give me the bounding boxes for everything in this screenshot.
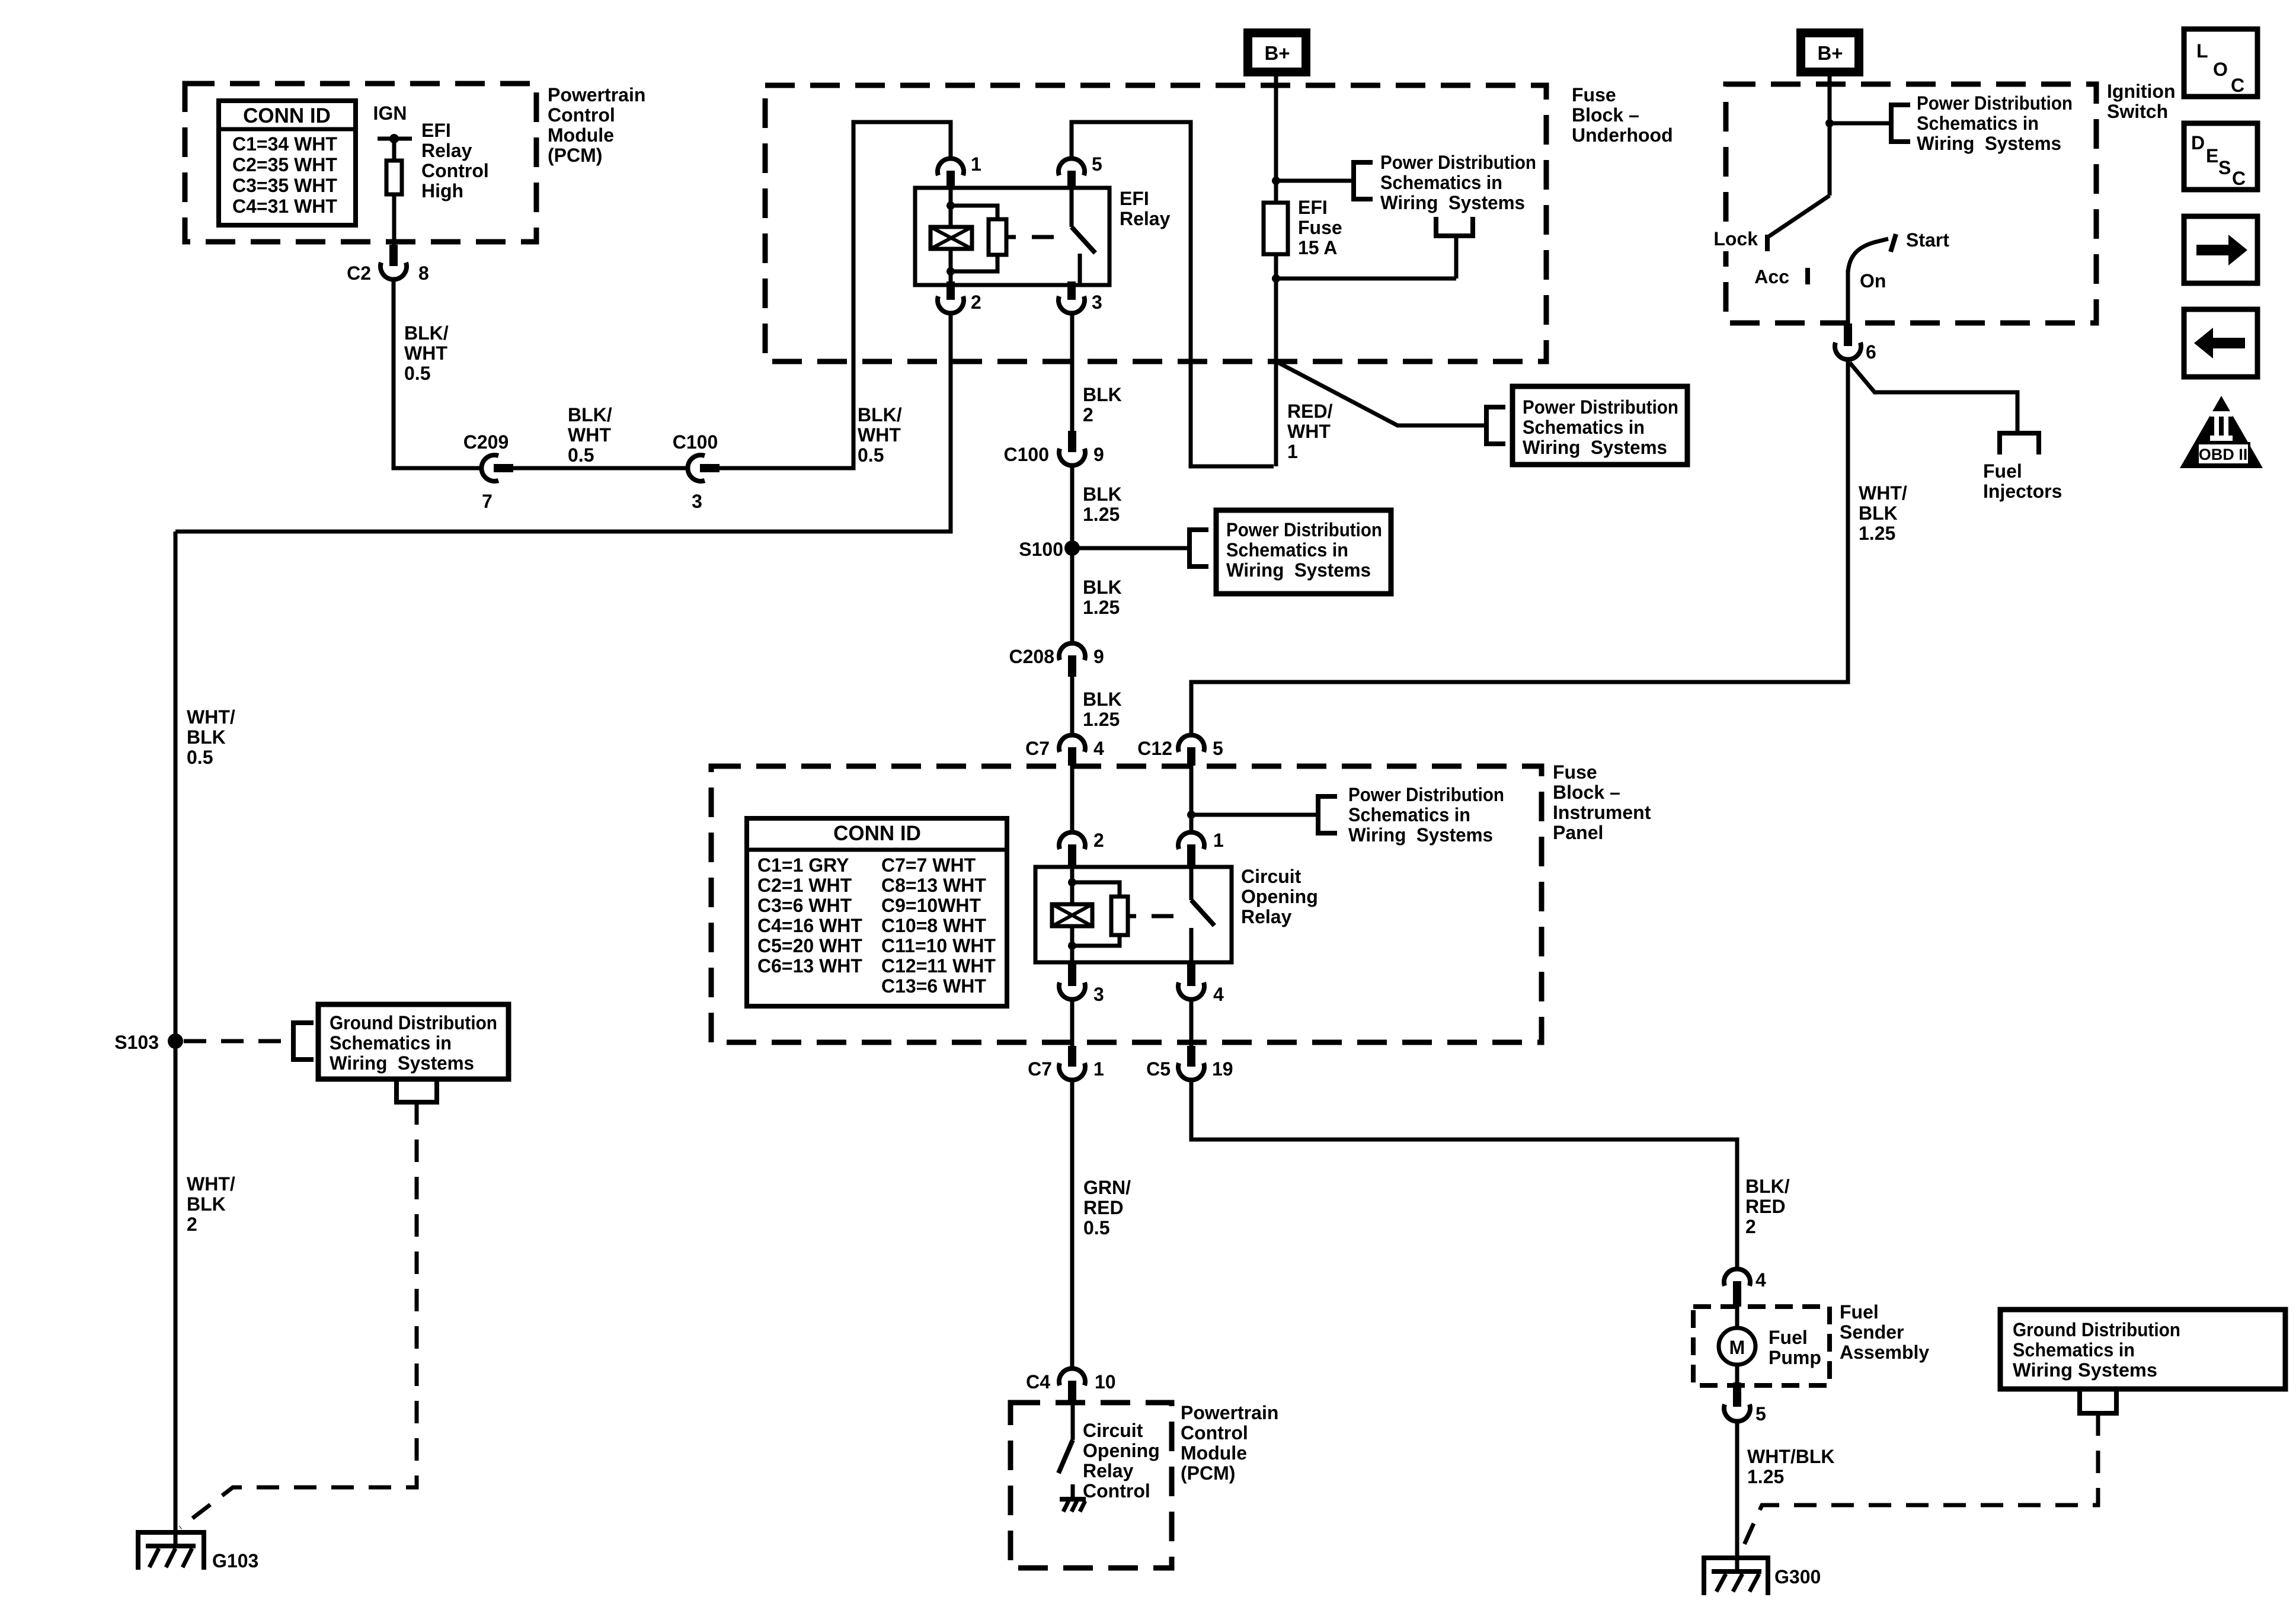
label BLK 1.25 (above S100) (1083, 484, 1122, 525)
svg-text:Wiring Systems: Wiring Systems (1348, 824, 1493, 846)
svg-text:Start: Start (1906, 229, 1949, 251)
svg-text:Opening: Opening (1083, 1440, 1160, 1461)
svg-text:WHT: WHT (568, 424, 611, 446)
svg-text:Ground Distribution: Ground Distribution (330, 1012, 497, 1033)
svg-text:Ignition: Ignition (2107, 81, 2176, 102)
Fuse Block - Underhood dashed box (765, 85, 1546, 361)
svg-text:IGN: IGN (373, 103, 407, 124)
svg-text:Power Distribution: Power Distribution (1380, 152, 1536, 173)
label EFI Relay Control High (421, 120, 489, 201)
svg-text:1: 1 (1287, 441, 1298, 462)
svg-text:C7: C7 (1028, 1058, 1052, 1080)
svg-text:Control: Control (1083, 1480, 1150, 1502)
flag bracket (B+ power distribution) (1354, 162, 1373, 199)
wire BLK 1.25 S100 to C208 (1070, 548, 1075, 644)
svg-text:C10=8 WHT: C10=8 WHT (881, 915, 986, 936)
svg-text:C11=10 WHT: C11=10 WHT (881, 935, 996, 956)
svg-text:4: 4 (1093, 738, 1104, 759)
svg-text:BLK: BLK (1083, 577, 1122, 598)
label WHT/BLK 1.25 (G300) (1747, 1446, 1835, 1487)
svg-text:C100: C100 (1004, 444, 1050, 465)
boxed flag Ground Distribution (G300) (2000, 1310, 2285, 1389)
label PCM (bottom) (1181, 1402, 1278, 1484)
wire WHT/BLK 1.25 pin6 down to C12 run (1191, 360, 1848, 735)
svg-text:Ground Distribution: Ground Distribution (2013, 1319, 2180, 1340)
svg-text:Schematics in: Schematics in (330, 1032, 452, 1054)
wire RED/WHT 1 fuse output down (1274, 254, 1278, 466)
svg-text:Switch: Switch (2107, 101, 2168, 122)
connector C100 pin 9 (1004, 431, 1104, 466)
svg-text:9: 9 (1093, 646, 1104, 667)
fuel injectors connector bracket (2000, 433, 2039, 454)
svg-text:10: 10 (1095, 1371, 1116, 1393)
svg-text:Block –: Block – (1553, 782, 1620, 803)
flag bracket (IP power distribution) (1318, 796, 1337, 833)
Circuit Opening Relay box (1035, 867, 1232, 962)
svg-text:Relay: Relay (421, 140, 472, 161)
svg-text:C2=1 WHT: C2=1 WHT (757, 875, 852, 896)
wire B+ into ignition switch (1828, 76, 1832, 196)
CONN ID table (PCM) (219, 101, 356, 225)
svg-text:WHT/: WHT/ (187, 1173, 235, 1195)
svg-text:Circuit: Circuit (1241, 866, 1302, 887)
svg-text:2: 2 (971, 292, 981, 313)
svg-text:Powertrain: Powertrain (548, 84, 645, 105)
svg-text:4: 4 (1755, 1269, 1766, 1291)
resistor EFI Relay Control High (386, 161, 402, 194)
fuel sender pin 4 (1724, 1269, 1766, 1307)
wire BLK/WHT 0.5 C100 to EFI relay pin 1 (720, 122, 951, 468)
svg-text:RED: RED (1083, 1197, 1124, 1218)
svg-text:Fuel: Fuel (1840, 1301, 1879, 1323)
Fuse Block - Instrument Panel dashed box (711, 766, 1542, 1042)
svg-text:Lock: Lock (1713, 228, 1758, 249)
label WHT/BLK 2 (left) (187, 1173, 235, 1235)
svg-text:5: 5 (1092, 153, 1102, 175)
svg-text:Control: Control (421, 160, 489, 181)
ground G103 (138, 1532, 258, 1571)
flag bracket (S103 ground distribution) (293, 1023, 314, 1060)
svg-text:5: 5 (1213, 738, 1223, 759)
flag return bracket (G300) (2080, 1389, 2116, 1413)
icon DESC box (2184, 123, 2257, 190)
svg-text:C: C (2231, 75, 2244, 96)
svg-text:0.5: 0.5 (568, 444, 594, 466)
svg-text:9: 9 (1093, 444, 1104, 465)
svg-text:EFI: EFI (1120, 188, 1149, 209)
ignition switch pin 6 (1835, 324, 1876, 363)
svg-text:0.5: 0.5 (1083, 1217, 1109, 1238)
wire diagonal to boxed flag (1276, 361, 1486, 425)
junction dot above EFI coil (946, 201, 955, 210)
svg-text:Panel: Panel (1553, 822, 1603, 843)
svg-text:G103: G103 (212, 1550, 258, 1571)
label BLK 1.25 (C208 to C7) (1083, 689, 1122, 730)
svg-text:Wiring Systems: Wiring Systems (330, 1052, 474, 1074)
svg-text:B+: B+ (1264, 42, 1290, 64)
ignition switch blade to Lock (1768, 196, 1830, 237)
svg-text:Fuse: Fuse (1572, 84, 1616, 105)
svg-text:(PCM): (PCM) (548, 145, 602, 166)
connector C5 pin 19 (1146, 1046, 1233, 1080)
svg-text:C12=11 WHT: C12=11 WHT (881, 955, 996, 977)
svg-text:Powertrain: Powertrain (1181, 1402, 1278, 1423)
svg-text:2: 2 (1745, 1216, 1756, 1237)
svg-text:B+: B+ (1817, 42, 1843, 64)
svg-text:1.25: 1.25 (1859, 523, 1895, 544)
EFI relay pin 2 (938, 281, 981, 313)
svg-text:Relay: Relay (1120, 208, 1171, 229)
svg-text:Pump: Pump (1769, 1347, 1821, 1368)
svg-text:WHT/BLK: WHT/BLK (1747, 1446, 1835, 1467)
CONN ID table (IP fuse block) (747, 818, 1007, 1006)
wire motor to pin 5 (1735, 1365, 1739, 1384)
flag return bracket (S103) (396, 1079, 437, 1102)
label Circuit Opening Relay Control (1083, 1420, 1160, 1502)
label Fuse Block - Underhood (1572, 84, 1673, 146)
svg-text:S: S (2218, 157, 2231, 178)
splice S103 (114, 1032, 183, 1053)
label WHT/BLK 0.5 (left) (187, 706, 235, 768)
junction dot above EFI fuse (1272, 177, 1280, 185)
svg-text:BLK: BLK (187, 1193, 226, 1215)
svg-text:C6=13 WHT: C6=13 WHT (757, 955, 862, 977)
battery feed B+ (underhood) (1243, 28, 1310, 76)
connector C209 pin 7 (463, 431, 513, 512)
svg-text:Fuel: Fuel (1769, 1327, 1808, 1348)
svg-text:Control: Control (1181, 1422, 1248, 1443)
svg-text:Schematics in: Schematics in (1917, 113, 2039, 134)
svg-text:C: C (2232, 168, 2246, 189)
flag text Power Distribution (IP) (1348, 784, 1504, 846)
label WHT/BLK 1.25 (ignition) (1859, 482, 1907, 544)
Fuel Sender Assembly dashed box (1693, 1307, 1830, 1385)
wire BLK/RED 2 C5-19 to fuel pump pin 4 (1191, 1081, 1737, 1269)
EFI relay actuator stub (1006, 235, 1016, 239)
svg-text:Power Distribution: Power Distribution (1348, 784, 1504, 805)
wire resistor to C2 pin 8 (392, 194, 396, 246)
EFI relay pin 3 (1059, 281, 1102, 313)
svg-text:C2: C2 (347, 263, 371, 284)
flag bracket (ignition power distribution) (1891, 105, 1910, 142)
wire BLK 2 from EFI relay pin 3 to C100-9 (1070, 314, 1075, 432)
svg-text:Wiring Systems: Wiring Systems (2013, 1359, 2157, 1381)
svg-text:O: O (2213, 59, 2228, 80)
wire IGN to resistor (392, 139, 396, 161)
svg-text:3: 3 (692, 491, 702, 512)
EFI relay pin 5 (1059, 153, 1102, 189)
svg-text:7: 7 (482, 491, 493, 512)
svg-text:3: 3 (1093, 984, 1104, 1005)
connector C7 pin 1 (1028, 1046, 1104, 1080)
svg-text:GRN/: GRN/ (1083, 1177, 1131, 1198)
fuel sender pin 5 (1724, 1382, 1766, 1425)
EFI relay switch (1072, 189, 1095, 285)
svg-text:C13=6 WHT: C13=6 WHT (881, 975, 986, 997)
label BLK 2 (1083, 384, 1122, 425)
svg-text:WHT/: WHT/ (1859, 482, 1907, 504)
svg-text:C4: C4 (1026, 1371, 1050, 1393)
svg-text:Assembly: Assembly (1840, 1342, 1929, 1363)
wire BLK 1.25 C100-9 to S100 (1070, 466, 1075, 548)
label Ignition Switch (2107, 81, 2176, 122)
dashed ground reference wire to G103 (180, 1102, 417, 1528)
junction dot above COR coil (1068, 878, 1076, 886)
svg-text:C2=35 WHT: C2=35 WHT (232, 154, 337, 175)
wire C7-4 into IP fuse block (1070, 766, 1075, 831)
label BLK 1.25 (S100 to C208) (1083, 577, 1122, 618)
svg-text:C4=16 WHT: C4=16 WHT (757, 915, 862, 936)
COR actuator dashed link (1152, 914, 1173, 918)
svg-text:Fuse: Fuse (1553, 761, 1597, 783)
COR coil wire pin2 side (1070, 867, 1075, 904)
wire EFI relay pin 2 down to G103 run (175, 314, 951, 532)
svg-text:C9=10WHT: C9=10WHT (881, 895, 981, 916)
svg-text:M: M (1729, 1337, 1745, 1358)
EFI relay coil wire pin1 side (949, 189, 953, 227)
svg-text:G300: G300 (1774, 1566, 1821, 1587)
svg-text:Block –: Block – (1572, 104, 1639, 126)
EFI relay coil wire pin2 side (949, 249, 953, 281)
PCM (top) label (548, 84, 645, 166)
label Fuel Pump (1769, 1327, 1821, 1368)
icon arrow left box (2184, 309, 2257, 377)
svg-text:1: 1 (1093, 1058, 1104, 1080)
svg-text:2: 2 (1083, 404, 1093, 425)
wire WHT/BLK 0.5 left ground run (174, 532, 178, 1546)
svg-text:C3=35 WHT: C3=35 WHT (232, 175, 337, 196)
COR coil (crossed box) (1052, 904, 1092, 926)
connector C12 pin 5 (1137, 735, 1223, 766)
svg-text:BLK: BLK (1083, 484, 1122, 505)
svg-text:C5: C5 (1146, 1058, 1171, 1080)
connector C100 pin 3 (673, 431, 720, 512)
junction dot below EFI coil (946, 267, 955, 276)
svg-text:1.25: 1.25 (1083, 709, 1120, 730)
label Fuse Block - Instrument Panel (1553, 761, 1651, 843)
svg-text:BLK/: BLK/ (568, 404, 612, 425)
svg-text:C7=7 WHT: C7=7 WHT (881, 854, 976, 876)
svg-text:1: 1 (1213, 830, 1224, 851)
svg-text:OBD II: OBD II (2199, 446, 2248, 463)
label Fuel Sender Assembly (1840, 1301, 1929, 1363)
junction dot below EFI fuse (1272, 274, 1280, 283)
wire junction to IP flag (1191, 813, 1318, 817)
COR control switch inside PCM (1059, 1403, 1073, 1499)
svg-text:BLK: BLK (187, 726, 226, 748)
contact Start (1891, 229, 1949, 252)
EFI relay parallel resistor branch (951, 206, 997, 219)
EFI relay actuator dashed link (1032, 235, 1054, 239)
flag bracket (RED/WHT power distribution) (1486, 407, 1505, 444)
COR pin 1 (1178, 830, 1224, 867)
label EFI Fuse 15 A (1298, 197, 1342, 258)
label BLK/RED 2 (1745, 1176, 1790, 1237)
svg-text:RED/: RED/ (1287, 401, 1333, 422)
svg-text:Schematics in: Schematics in (1523, 417, 1645, 438)
svg-text:Schematics in: Schematics in (1226, 539, 1348, 561)
svg-text:Wiring Systems: Wiring Systems (1917, 133, 2061, 154)
svg-text:BLK: BLK (1083, 384, 1122, 405)
svg-text:19: 19 (1212, 1058, 1233, 1080)
wire GRN/RED 0.5 C7-1 to C4-10 (1070, 1081, 1075, 1369)
EFI relay resistor (989, 219, 1006, 255)
svg-text:E: E (2206, 145, 2218, 167)
svg-text:On: On (1860, 270, 1886, 292)
svg-text:S100: S100 (1019, 539, 1063, 560)
svg-text:C208: C208 (1009, 646, 1055, 667)
icon LOC box (2184, 29, 2257, 97)
svg-text:Control: Control (548, 104, 615, 126)
svg-text:C1=34 WHT: C1=34 WHT (232, 133, 337, 155)
wire junction to flag bracket (1276, 179, 1354, 183)
boxed flag Power Distribution (RED/WHT) (1512, 386, 1687, 465)
wire COR pin 3 to C7-1 (1070, 1000, 1075, 1047)
label BLK/WHT 0.5 (right of C100) (858, 404, 902, 466)
ground G300 (1704, 1558, 1821, 1595)
icon arrow right box (2184, 216, 2257, 283)
svg-text:C5=20 WHT: C5=20 WHT (757, 935, 862, 956)
svg-text:CONN ID: CONN ID (243, 104, 331, 127)
svg-text:WHT: WHT (1287, 421, 1331, 442)
Powertrain Control Module (PCM) top module dashed box (185, 84, 536, 242)
Ignition Switch dashed box (1726, 84, 2096, 323)
EFI relay pin 1 (938, 153, 981, 189)
svg-text:1.25: 1.25 (1083, 504, 1120, 525)
fuse EFI Fuse 15 A (1264, 203, 1288, 254)
svg-text:C12: C12 (1137, 738, 1172, 759)
svg-text:L: L (2196, 40, 2208, 62)
wire EFI relay pin 5 loop to fuse output (1072, 122, 1274, 466)
COR parallel resistor branch (1072, 882, 1120, 897)
wire to ignition flag (1830, 121, 1891, 126)
svg-text:WHT/: WHT/ (187, 706, 235, 728)
svg-text:D: D (2191, 132, 2205, 153)
svg-text:Circuit: Circuit (1083, 1420, 1143, 1441)
flag return bracket to EFI fuse output (1436, 217, 1473, 236)
wire C12-5 to COR pin 1 (1189, 766, 1194, 831)
svg-text:3: 3 (1092, 292, 1102, 313)
svg-text:WHT: WHT (858, 424, 901, 446)
COR resistor (1111, 897, 1128, 935)
label Circuit Opening Relay (1241, 866, 1318, 927)
junction dot below COR coil (1068, 942, 1076, 950)
svg-text:4: 4 (1213, 984, 1224, 1005)
svg-text:Power Distribution: Power Distribution (1523, 396, 1678, 418)
svg-text:EFI: EFI (421, 120, 451, 141)
svg-text:Wiring Systems: Wiring Systems (1523, 437, 1667, 458)
svg-text:1.25: 1.25 (1083, 597, 1120, 618)
node IGN (373, 103, 412, 143)
svg-text:Schematics in: Schematics in (1380, 172, 1502, 193)
label BLK/WHT 0.5 (below C2) (404, 322, 449, 384)
wire BLK 1.25 C208 to C7-4 (1070, 677, 1075, 735)
connector C4 pin 10 (1026, 1368, 1116, 1403)
battery feed B+ (ignition) (1796, 28, 1863, 76)
wire S100 to flag (1072, 546, 1189, 550)
wire BLK/WHT 0.5 C209 to C100 (513, 466, 687, 470)
svg-text:Acc: Acc (1754, 266, 1789, 287)
svg-text:Schematics in: Schematics in (1348, 804, 1470, 825)
svg-text:BLK: BLK (1083, 689, 1122, 710)
svg-text:Wiring Systems: Wiring Systems (1226, 559, 1371, 581)
svg-text:Underhood: Underhood (1572, 124, 1673, 146)
svg-text:0.5: 0.5 (187, 747, 213, 768)
svg-text:2: 2 (1093, 830, 1104, 851)
svg-text:C1=1 GRY: C1=1 GRY (757, 854, 849, 876)
wire On contact to pin 6 (1846, 270, 1850, 325)
svg-text:C209: C209 (463, 431, 509, 453)
svg-text:BLK/: BLK/ (1745, 1176, 1790, 1197)
COR pin 4 (1178, 962, 1224, 1005)
boxed flag Power Distribution (S100) (1216, 510, 1391, 594)
svg-text:RED: RED (1745, 1196, 1786, 1217)
svg-text:C100: C100 (673, 431, 718, 453)
svg-text:WHT: WHT (404, 343, 447, 364)
EFI relay U-box (915, 188, 1109, 285)
svg-text:Power Distribution: Power Distribution (1917, 92, 2073, 114)
dashed wire S103 to flag (184, 1039, 293, 1044)
COR actuator stub (1128, 914, 1136, 918)
svg-text:Module: Module (1181, 1442, 1247, 1464)
svg-text:(PCM): (PCM) (1181, 1462, 1235, 1484)
svg-text:CONN ID: CONN ID (833, 822, 921, 845)
label GRN/RED 0.5 (1083, 1177, 1131, 1238)
wire WHT/BLK 1.25 pin 5 to G300 (1735, 1422, 1739, 1571)
svg-text:8: 8 (418, 263, 429, 284)
wire COR pin 4 to C5-19 (1189, 1000, 1194, 1047)
splice S100 (1019, 539, 1080, 560)
svg-text:BLK/: BLK/ (404, 322, 449, 344)
svg-text:S103: S103 (114, 1032, 159, 1053)
connector C7 pin 4 (1025, 735, 1104, 766)
label EFI Relay (1120, 188, 1171, 229)
contact On with curve (1848, 239, 1888, 292)
flag bracket (S100 power distribution) (1189, 530, 1208, 566)
dashed ground reference wire to G300 (1740, 1413, 2098, 1554)
svg-text:Fuse: Fuse (1298, 217, 1342, 238)
svg-text:High: High (421, 180, 463, 201)
icon OBD II triangle (2180, 396, 2263, 468)
label Fuel Injectors (1983, 460, 2062, 502)
svg-text:0.5: 0.5 (404, 363, 430, 384)
svg-text:Wiring Systems: Wiring Systems (1380, 192, 1525, 213)
svg-text:Instrument: Instrument (1553, 802, 1651, 823)
COR pin 2 (1059, 830, 1104, 867)
connector C2 pin 8 (PCM) (347, 245, 429, 284)
label BLK/WHT 0.5 (between C209 and C100) (568, 404, 612, 466)
contact Lock (1713, 228, 1767, 251)
EFI relay coil (crossed box) (930, 227, 972, 249)
flag text Power Distribution (underhood B+) (1380, 152, 1536, 213)
svg-text:Injectors: Injectors (1983, 481, 2062, 502)
svg-text:BLK: BLK (1859, 502, 1898, 524)
fuel pump motor M (1719, 1328, 1755, 1365)
wire branch to fuel injectors (1850, 363, 2017, 433)
svg-text:Schematics in: Schematics in (2013, 1339, 2135, 1361)
svg-text:Module: Module (548, 124, 614, 146)
label RED/WHT 1 (1287, 401, 1333, 462)
svg-text:Sender: Sender (1840, 1321, 1904, 1343)
wire B+ to EFI fuse (1274, 76, 1278, 203)
svg-text:15 A: 15 A (1298, 237, 1337, 258)
svg-text:C7: C7 (1025, 738, 1050, 759)
ground (PCM internal) (1060, 1499, 1086, 1512)
flag text Power Distribution (ignition) (1917, 92, 2073, 154)
svg-text:1: 1 (971, 153, 981, 175)
svg-text:6: 6 (1866, 341, 1876, 363)
svg-text:C4=31 WHT: C4=31 WHT (232, 196, 337, 217)
